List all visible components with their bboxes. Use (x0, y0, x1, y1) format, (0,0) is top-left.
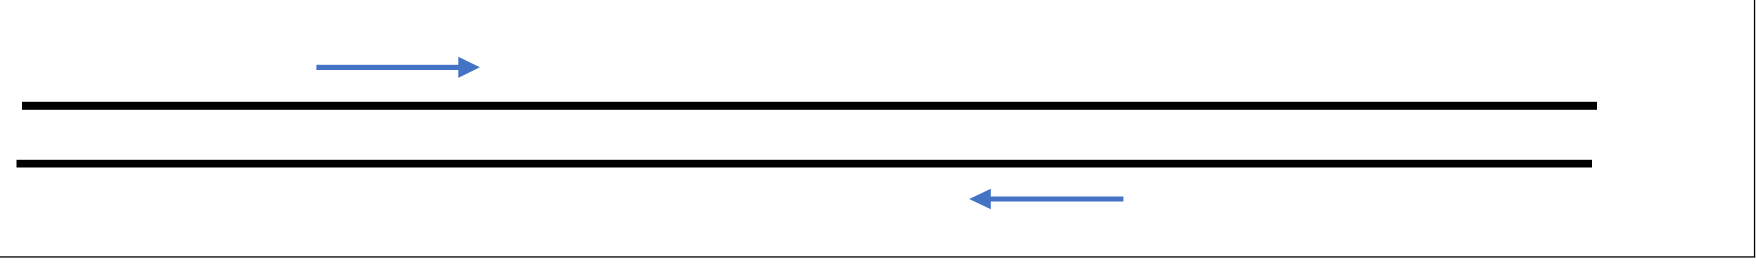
frame border (right edge) (1754, 0, 1755, 258)
wire (bottom conductor) (17, 160, 1593, 168)
current arrow (lower conductor, pointing left) (969, 189, 1123, 209)
wire (top conductor) (22, 102, 1597, 110)
frame border (bottom edge) (0, 256, 1755, 257)
current arrow (upper conductor, pointing right) (316, 57, 480, 78)
